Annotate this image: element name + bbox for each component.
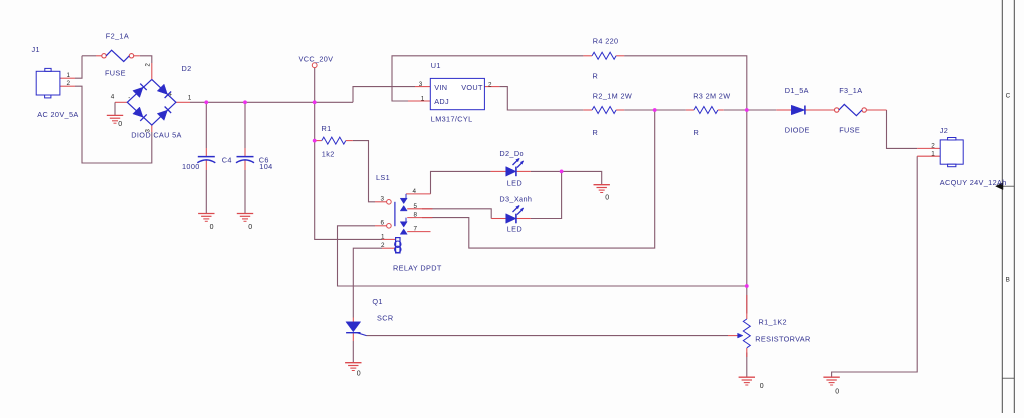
svg-text:RELAY DPDT: RELAY DPDT: [393, 264, 442, 273]
svg-text:4: 4: [413, 188, 417, 195]
svg-text:1000: 1000: [182, 162, 200, 171]
svg-text:F3_1A: F3_1A: [839, 86, 862, 95]
svg-text:1: 1: [188, 95, 192, 102]
svg-text:1k2: 1k2: [322, 149, 335, 158]
svg-text:2: 2: [381, 242, 385, 249]
svg-text:R: R: [694, 128, 700, 137]
svg-text:R: R: [593, 71, 599, 80]
svg-text:R4 220: R4 220: [593, 37, 619, 46]
svg-text:R1: R1: [322, 124, 332, 133]
svg-text:D2: D2: [182, 64, 192, 73]
svg-text:F2_1A: F2_1A: [106, 32, 129, 41]
svg-text:2: 2: [67, 80, 71, 87]
svg-text:U1: U1: [431, 61, 441, 70]
svg-text:SCR: SCR: [377, 314, 393, 323]
svg-text:1: 1: [381, 233, 385, 240]
svg-text:LS1: LS1: [376, 173, 390, 182]
svg-text:D1_5A: D1_5A: [785, 86, 809, 95]
svg-text:RESISTORVAR: RESISTORVAR: [755, 335, 810, 344]
svg-text:+: +: [169, 93, 173, 99]
svg-text:0: 0: [835, 389, 839, 396]
svg-text:3: 3: [419, 81, 423, 88]
svg-text:6: 6: [381, 220, 385, 227]
svg-text:0: 0: [118, 121, 122, 128]
svg-text:R2_1M 2W: R2_1M 2W: [593, 92, 632, 101]
svg-text:0: 0: [605, 195, 609, 202]
svg-text:2: 2: [931, 142, 935, 149]
svg-text:0: 0: [210, 224, 214, 231]
svg-text:0: 0: [357, 371, 361, 378]
svg-text:R: R: [593, 128, 599, 137]
svg-text:LM317/CYL: LM317/CYL: [431, 115, 473, 124]
svg-text:104: 104: [259, 162, 272, 171]
svg-text:AC 20V_5A: AC 20V_5A: [37, 110, 78, 119]
svg-text:0: 0: [760, 383, 764, 390]
svg-text:7: 7: [414, 225, 418, 232]
svg-text:1: 1: [67, 72, 71, 79]
svg-text:D3_Xanh: D3_Xanh: [499, 195, 532, 204]
svg-text:DIODE: DIODE: [785, 126, 810, 135]
svg-text:2: 2: [488, 81, 492, 88]
svg-text:VOUT: VOUT: [461, 83, 483, 92]
svg-text:ADJ: ADJ: [434, 97, 449, 106]
svg-text:8: 8: [414, 211, 418, 218]
svg-text:3: 3: [381, 196, 385, 203]
svg-text:LED: LED: [507, 179, 522, 188]
svg-text:DIOD CAU 5A: DIOD CAU 5A: [131, 131, 181, 140]
svg-text:VIN: VIN: [434, 83, 447, 92]
svg-text:D2_Do: D2_Do: [499, 149, 523, 158]
svg-text:1: 1: [931, 150, 935, 157]
svg-text:R3 2M 2W: R3 2M 2W: [693, 92, 730, 101]
svg-text:J2: J2: [940, 126, 948, 135]
svg-text:R1_1K2: R1_1K2: [759, 318, 787, 327]
svg-text:FUSE: FUSE: [839, 126, 860, 135]
svg-text:1: 1: [421, 95, 425, 102]
svg-text:J1: J1: [32, 45, 40, 54]
svg-text:-: -: [128, 96, 130, 102]
svg-text:Q1: Q1: [372, 297, 382, 306]
svg-text:C: C: [1006, 93, 1011, 100]
svg-text:LED: LED: [507, 225, 522, 234]
svg-text:B: B: [1006, 277, 1010, 284]
svg-text:4: 4: [111, 94, 115, 101]
svg-text:C4: C4: [222, 156, 232, 165]
svg-text:VCC_20V: VCC_20V: [299, 55, 334, 64]
svg-text:0: 0: [248, 224, 252, 231]
svg-text:5: 5: [414, 203, 418, 210]
svg-text:ACQUY 24V_12Ah: ACQUY 24V_12Ah: [940, 178, 1007, 187]
svg-text:FUSE: FUSE: [105, 69, 126, 78]
